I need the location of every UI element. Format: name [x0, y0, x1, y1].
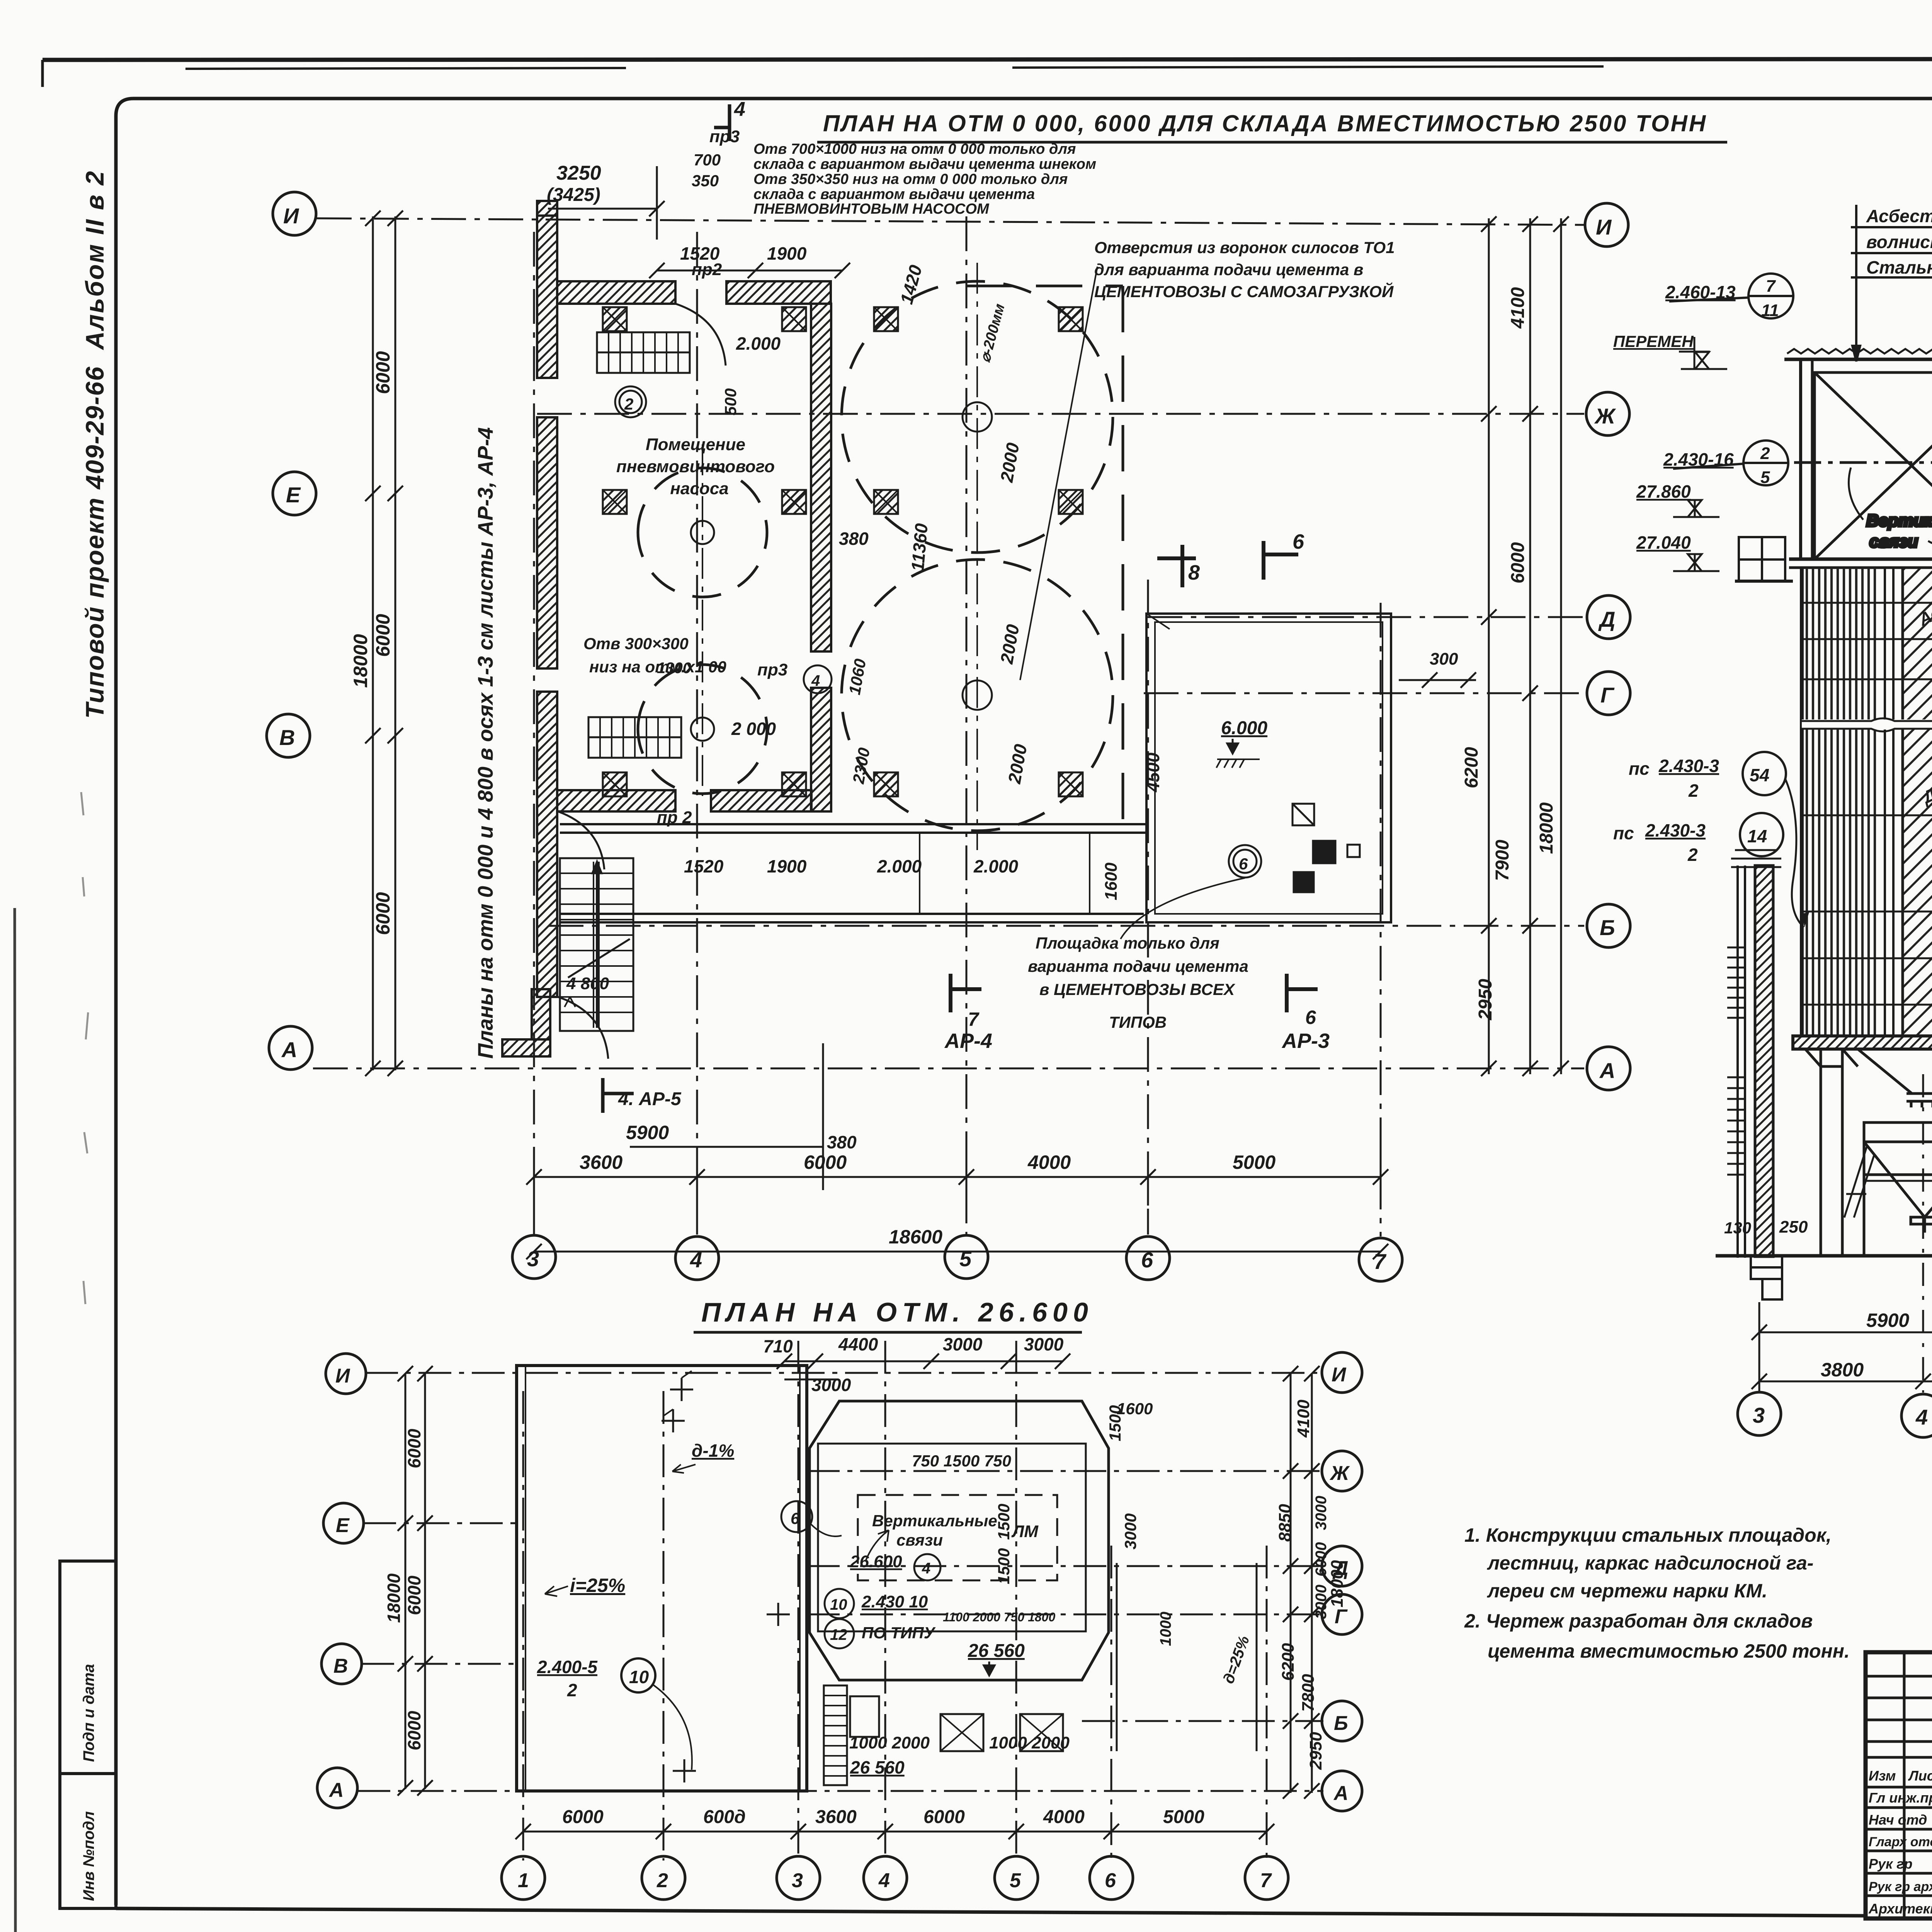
svg-text:14: 14 [1747, 826, 1767, 846]
big dashed silo circles [638, 281, 1113, 831]
svg-text:ТИПОВ: ТИПОВ [1109, 1013, 1167, 1031]
svg-text:6000: 6000 [404, 1429, 424, 1468]
svg-text:130: 130 [1724, 1219, 1751, 1237]
svg-text:6000: 6000 [1508, 542, 1528, 583]
svg-text:4: 4 [811, 672, 820, 689]
svg-text:3000: 3000 [1024, 1334, 1064, 1354]
conveyor upper [597, 332, 690, 373]
svg-text:А: А [1333, 1782, 1349, 1804]
svg-text:Альбом II в 2: Альбом II в 2 [80, 170, 109, 350]
svg-text:4500: 4500 [1143, 752, 1163, 793]
svg-text:250: 250 [1779, 1218, 1808, 1236]
svg-text:3800: 3800 [1821, 1359, 1864, 1381]
svg-text:Отв 700×1000 низ на отм 0 000: Отв 700×1000 низ на отм 0 000 только для [753, 141, 1076, 157]
svg-text:И: И [335, 1365, 350, 1387]
diag hatch column 1 [1903, 568, 1932, 1036]
dashed boundary right of circles [1122, 286, 1124, 842]
right bubbles plan2 [1322, 1352, 1362, 1811]
svg-text:6000: 6000 [404, 1575, 424, 1615]
svg-text:1600: 1600 [1102, 862, 1121, 900]
conveyor lower [588, 717, 681, 758]
svg-text:12: 12 [830, 1626, 847, 1643]
svg-text:Отв 350×350 низ на отм 0 000 т: Отв 350×350 низ на отм 0 000 только для [753, 171, 1068, 187]
svg-text:380: 380 [839, 529, 869, 549]
vertical braces label [1866, 511, 1932, 551]
svg-text:10: 10 [830, 1596, 847, 1613]
svg-text:ПЛАН НА ОТМ. 26.600: ПЛАН НА ОТМ. 26.600 [701, 1297, 1094, 1327]
svg-text:2: 2 [1688, 781, 1699, 801]
svg-text:ПО ТИПУ: ПО ТИПУ [862, 1624, 936, 1642]
grid lines vertical [533, 232, 535, 1235]
left margin cell podp i data [60, 1561, 116, 1774]
svg-text:4100: 4100 [1294, 1400, 1313, 1438]
svg-text:1500: 1500 [995, 1504, 1013, 1540]
svg-text:В: В [333, 1655, 348, 1677]
svg-text:26 560: 26 560 [968, 1641, 1025, 1661]
room label [616, 435, 775, 498]
circle 7/11 [1669, 274, 1793, 485]
svg-text:3000: 3000 [1313, 1496, 1330, 1530]
svg-text:6: 6 [1105, 1869, 1116, 1892]
silo center lines [702, 263, 977, 850]
stair tower left [1727, 850, 1782, 1299]
svg-text:27.040: 27.040 [1636, 532, 1691, 553]
svg-text:710: 710 [763, 1336, 793, 1356]
svg-text:2.000: 2.000 [973, 856, 1019, 876]
svg-text:5: 5 [1010, 1869, 1021, 1892]
platform strip [560, 824, 1146, 922]
svg-text:6: 6 [791, 1509, 800, 1527]
silo body striped walls [1802, 568, 1932, 1036]
revision grid empty rows [1866, 1675, 1932, 1678]
svg-text:Изм: Изм [1869, 1768, 1896, 1784]
svg-text:1600: 1600 [1117, 1400, 1153, 1418]
svg-text:Вертикальные: Вертикальные [872, 1512, 997, 1530]
revision header row [1866, 1756, 1932, 1759]
circle 6 annex [1229, 845, 1261, 878]
svg-text:4 800: 4 800 [566, 974, 609, 993]
svg-text:380: 380 [827, 1132, 857, 1152]
svg-text:3: 3 [1753, 1403, 1765, 1427]
svg-text:АР-4: АР-4 [944, 1029, 992, 1053]
svg-text:Отв 300×300: Отв 300×300 [583, 634, 689, 653]
svg-text:6: 6 [1239, 855, 1248, 873]
left dim chain plan2 [398, 1366, 433, 1796]
svg-text:Вертикальные: Вертикальные [1866, 511, 1932, 530]
svg-text:1500: 1500 [995, 1548, 1013, 1584]
svg-text:2: 2 [567, 1680, 577, 1700]
svg-text:5900: 5900 [1866, 1310, 1909, 1331]
svg-text:Лист: Лист [1908, 1768, 1932, 1784]
svg-text:6: 6 [1293, 530, 1304, 553]
svg-text:связи: связи [1869, 532, 1918, 551]
bottom grid bubbles [512, 1235, 1402, 1281]
south wall of pump room [557, 790, 675, 811]
svg-text:4. АР-5: 4. АР-5 [618, 1089, 682, 1109]
svg-text:6.000: 6.000 [1221, 718, 1267, 738]
svg-text:2. Чертеж разработан для склад: 2. Чертеж разработан для складов [1464, 1610, 1813, 1632]
svg-text:3000: 3000 [943, 1334, 983, 1354]
svg-text:6200: 6200 [1279, 1643, 1298, 1681]
page left cut edge [15, 908, 15, 1932]
svg-text:А: А [281, 1037, 297, 1062]
svg-text:пневмовинтового: пневмовинтового [616, 457, 775, 476]
svg-text:300: 300 [1430, 650, 1458, 668]
svg-text:ПЕРЕМЕН: ПЕРЕМЕН [1613, 332, 1694, 350]
svg-text:Ж: Ж [1594, 404, 1616, 428]
svg-text:Асбестоцементные: Асбестоцементные [1866, 206, 1932, 226]
svg-text:Б: Б [1600, 915, 1615, 940]
svg-text:1. Конструкции стальных площад: 1. Конструкции стальных площадок, [1464, 1524, 1832, 1546]
svg-text:Б: Б [1334, 1712, 1348, 1735]
interior east wall [811, 304, 831, 651]
svg-text:i=25%: i=25% [570, 1575, 625, 1596]
ground line [1716, 1256, 1932, 1294]
svg-text:18000: 18000 [1328, 1560, 1347, 1607]
gallery floor slab [1789, 559, 1932, 568]
svg-text:6000: 6000 [923, 1807, 965, 1827]
svg-text:18000: 18000 [384, 1573, 404, 1623]
svg-text:4: 4 [734, 98, 745, 121]
svg-text:2.430-3: 2.430-3 [1645, 820, 1706, 840]
svg-text:6000: 6000 [372, 614, 394, 657]
svg-text:В: В [279, 725, 295, 750]
svg-text:8850: 8850 [1276, 1504, 1294, 1542]
svg-text:500: 500 [721, 388, 740, 415]
svg-text:1000 2000: 1000 2000 [989, 1733, 1070, 1752]
bottom slab [1793, 1036, 1932, 1049]
bottom bubbles plan2 [502, 1856, 1288, 1900]
roof legend 3 lines [1866, 206, 1932, 277]
small center circles [691, 402, 992, 741]
svg-text:2: 2 [1760, 444, 1770, 463]
right dim chain plan2 [1283, 1366, 1320, 1799]
svg-text:6000: 6000 [404, 1711, 424, 1750]
left bubbles plan2 [317, 1354, 366, 1808]
right side rotated dims plan1 [1481, 216, 1569, 1076]
svg-text:в ЦЕМЕНТОВОЗЫ ВСЕХ: в ЦЕМЕНТОВОЗЫ ВСЕХ [1039, 980, 1236, 998]
west wall upper [537, 216, 557, 378]
gallery tower [1784, 341, 1932, 560]
svg-text:6: 6 [1305, 1007, 1316, 1028]
svg-text:Гларх отд: Гларх отд [1869, 1835, 1932, 1849]
note text top 5 lines [753, 141, 1096, 217]
right grid bubbles [1585, 203, 1630, 1090]
grid verticals [522, 1391, 524, 1861]
left margin cell inv n podl [60, 1774, 116, 1908]
svg-text:8: 8 [1188, 561, 1200, 584]
G-SECTION [1613, 141, 1932, 1437]
svg-text:ПЛАН НА ОТМ 0 000, 6000: ПЛАН НА ОТМ 0 000, 6000 ДЛЯ СКЛАДА ВМЕСТ… [823, 111, 1707, 136]
svg-text:2.000: 2.000 [877, 856, 922, 876]
ref circles 10 12 [825, 1589, 854, 1648]
columns with x [603, 307, 1083, 796]
svg-text:6000: 6000 [372, 892, 394, 935]
stair bottom left [560, 858, 633, 1031]
svg-text:д-1%: д-1% [692, 1440, 734, 1461]
svg-text:2.000: 2.000 [736, 333, 781, 354]
svg-text:350: 350 [692, 172, 719, 190]
left labels column [1613, 282, 1736, 553]
svg-text:для варианта подачи цемента: для варианта подачи цемента в [1094, 260, 1363, 279]
svg-text:18600: 18600 [889, 1226, 942, 1248]
north wall [557, 281, 675, 304]
svg-text:цемента вместимостью 2500 тонн: цемента вместимостью 2500 тонн. [1488, 1640, 1850, 1662]
svg-text:3000: 3000 [1313, 1585, 1330, 1619]
svg-text:А: А [328, 1779, 344, 1801]
title block outer box [1866, 1652, 1932, 1918]
svg-text:2 000: 2 000 [731, 719, 776, 739]
grid horizontals [357, 1341, 1323, 1861]
svg-text:5900: 5900 [626, 1122, 669, 1143]
svg-text:Рук гр арх: Рук гр арх [1869, 1879, 1932, 1894]
section mark 4 top [714, 104, 730, 141]
svg-text:7800: 7800 [1299, 1674, 1318, 1712]
svg-text:4: 4 [1915, 1405, 1928, 1429]
svg-text:7: 7 [968, 1009, 980, 1030]
svg-text:Нач отд: Нач отд [1869, 1812, 1927, 1828]
svg-text:6000: 6000 [562, 1807, 604, 1827]
leg capitals [1805, 1049, 1858, 1066]
body edges [1800, 568, 1804, 1036]
svg-text:18000: 18000 [350, 634, 371, 688]
svg-text:3250: 3250 [556, 162, 601, 184]
svg-text:пр2: пр2 [692, 260, 722, 279]
svg-text:лестниц, каркас надсилосной га: лестниц, каркас надсилосной га- [1487, 1552, 1813, 1574]
gallery octagon [810, 1401, 1109, 1680]
svg-text:3600: 3600 [580, 1151, 622, 1173]
G-PLAN1 [267, 98, 1727, 1281]
svg-text:26 560: 26 560 [850, 1757, 905, 1777]
svg-text:7900: 7900 [1492, 840, 1513, 881]
bottom dim line plan2 [515, 1824, 1274, 1839]
grid bubbles 3 4 5 [1738, 1392, 1932, 1437]
svg-text:АР-3: АР-3 [1281, 1029, 1330, 1053]
svg-text:ЦЕМЕНТОВОЗЫ С САМОЗАГРУЗКОЙ: ЦЕМЕНТОВОЗЫ С САМОЗАГРУЗКОЙ [1094, 282, 1394, 301]
svg-text:6200: 6200 [1461, 747, 1482, 788]
legs [1805, 1049, 1932, 1256]
bottom section marks AR-4 AR-3 [951, 974, 1318, 1012]
building outline plan2 [517, 1366, 807, 1791]
west wall middle [537, 417, 557, 668]
west wall lower [537, 692, 557, 997]
svg-text:Планы на отм 0 000 и 4 800 в о: Планы на отм 0 000 и 4 800 в осях 1-3 см… [473, 427, 497, 1059]
svg-text:Ж: Ж [1329, 1462, 1350, 1485]
svg-text:4000: 4000 [1027, 1151, 1071, 1173]
west wall cap above I [537, 201, 557, 216]
svg-text:связи: связи [896, 1531, 943, 1549]
left dimension chain [365, 211, 403, 1076]
svg-text:4400: 4400 [838, 1334, 878, 1354]
svg-text:Г: Г [1600, 683, 1615, 707]
svg-text:4100: 4100 [1508, 287, 1528, 329]
svg-text:Помещение: Помещение [646, 435, 745, 454]
svg-text:5000: 5000 [1233, 1151, 1276, 1173]
svg-text:Рук гр: Рук гр [1869, 1856, 1912, 1872]
ploshchadka note 4 lines [1028, 934, 1248, 1031]
svg-text:4: 4 [878, 1869, 890, 1892]
walls [537, 201, 831, 1059]
svg-text:750 1500 750: 750 1500 750 [912, 1452, 1011, 1470]
revision grid verticals [1903, 1652, 1906, 1918]
X brace panel [1815, 372, 1932, 559]
svg-text:11360: 11360 [907, 522, 932, 572]
svg-text:54: 54 [1750, 765, 1769, 785]
drain crosses [662, 1371, 790, 1782]
svg-text:волнистые листы: волнистые листы [1866, 232, 1932, 252]
svg-text:Отверстия из воронок силосов: Отверстия из воронок силосов ТО1 [1094, 238, 1395, 257]
svg-text:Стальные прогоны: Стальные прогоны [1866, 257, 1932, 277]
name rows [1866, 1806, 1932, 1809]
wavy break band [1802, 718, 1932, 731]
svg-text:7: 7 [1766, 277, 1776, 296]
annex platform right [1146, 614, 1391, 922]
svg-text:пр3: пр3 [709, 127, 740, 146]
svg-text:ЛМ: ЛМ [1011, 1522, 1039, 1541]
svg-text:10: 10 [629, 1667, 649, 1687]
svg-text:5: 5 [959, 1247, 972, 1271]
svg-text:1: 1 [518, 1869, 529, 1892]
svg-text:2950: 2950 [1475, 979, 1496, 1020]
G-PLAN2 [317, 1297, 1362, 1900]
svg-text:ПНЕВМОВИНТОВЫМ НАСОСОМ: ПНЕВМОВИНТОВЫМ НАСОСОМ [753, 201, 990, 217]
svg-text:26.600: 26.600 [850, 1552, 902, 1571]
svg-text:2: 2 [1687, 845, 1698, 865]
svg-text:Гл инж.пр: Гл инж.пр [1869, 1790, 1932, 1806]
svg-text:7: 7 [1260, 1869, 1272, 1892]
svg-text:3: 3 [527, 1247, 539, 1271]
svg-text:1000: 1000 [1157, 1612, 1174, 1646]
svg-text:3000: 3000 [1121, 1514, 1139, 1549]
svg-text:1300: 1300 [657, 660, 691, 677]
title block texts [1868, 1674, 1932, 1921]
svg-text:И: И [1332, 1364, 1347, 1386]
svg-text:5: 5 [1760, 468, 1770, 487]
svg-text:4000: 4000 [1043, 1807, 1085, 1827]
G-NOTES [1464, 1524, 1850, 1662]
svg-text:2.430-3: 2.430-3 [1658, 756, 1719, 776]
bottom dim lines [1752, 1074, 1932, 1393]
svg-text:лереи см чертежи нарки КМ.: лереи см чертежи нарки КМ. [1487, 1580, 1767, 1602]
callout text 3 lines [1094, 238, 1395, 301]
svg-text:700: 700 [694, 151, 721, 169]
svg-text:3: 3 [792, 1869, 803, 1892]
G-TITLEBLOCK [1866, 1597, 1932, 1932]
frame bottom line [116, 1908, 1866, 1916]
svg-text:И: И [283, 204, 299, 228]
svg-text:4: 4 [922, 1560, 930, 1577]
hopper A [1858, 1049, 1932, 1094]
svg-text:1900: 1900 [767, 856, 807, 876]
left grid bubbles [267, 192, 316, 1070]
svg-text:Г: Г [1335, 1605, 1348, 1628]
svg-text:2: 2 [656, 1869, 668, 1892]
svg-text:пс: пс [1613, 823, 1634, 843]
svg-text:6000: 6000 [372, 351, 394, 394]
svg-text:18000: 18000 [1536, 802, 1557, 854]
svg-text:1900: 1900 [767, 243, 807, 264]
svg-text:И: И [1596, 215, 1612, 239]
svg-text:склада с вариантом выдачи цеме: склада с вариантом выдачи цемента [753, 186, 1035, 202]
svg-text:6000: 6000 [1313, 1542, 1330, 1577]
horizontal band lines [1802, 602, 1932, 604]
svg-text:6000: 6000 [804, 1151, 847, 1173]
svg-text:2.400-5: 2.400-5 [537, 1657, 598, 1677]
svg-text:3600: 3600 [815, 1807, 857, 1827]
lower bin with funnel [1844, 1122, 1932, 1256]
svg-text:5000: 5000 [1163, 1807, 1204, 1827]
panel joint lines [1884, 568, 1886, 1036]
svg-text:1000 2000: 1000 2000 [849, 1733, 930, 1752]
legend leader left [1852, 205, 1860, 361]
svg-text:варианта подачи цемента: варианта подачи цемента [1028, 957, 1248, 975]
door arcs [675, 304, 726, 366]
legend rules [1851, 226, 1932, 228]
svg-text:склада с вариантом выдачи цеме: склада с вариантом выдачи цемента шнеком [753, 156, 1096, 172]
section marks 8 and 6 [1157, 541, 1298, 587]
svg-text:пс: пс [1629, 759, 1650, 779]
svg-text:Инв №подл: Инв №подл [80, 1811, 97, 1901]
svg-text:3000: 3000 [811, 1375, 851, 1395]
svg-text:Подп и дата: Подп и дата [80, 1664, 97, 1762]
platform at level 27.040 [1735, 537, 1793, 581]
svg-text:600д: 600д [703, 1807, 746, 1827]
bottom dims [603, 1078, 634, 1113]
level marks left [1673, 337, 1727, 571]
svg-text:1100 2000 750 1800: 1100 2000 750 1800 [943, 1610, 1055, 1624]
svg-text:Е: Е [336, 1514, 350, 1537]
svg-text:Типовой проект 409-29-66: Типовой проект 409-29-66 [80, 366, 109, 719]
room number circle 2 [615, 386, 646, 417]
ps 2.430-3/2 circle 54 [1613, 756, 1719, 865]
svg-text:Архитект: Архитект [1868, 1901, 1932, 1917]
svg-text:27.860: 27.860 [1636, 481, 1691, 502]
svg-text:насоса: насоса [670, 479, 728, 498]
lower appendages [824, 1563, 1257, 1785]
svg-text:2.430 10: 2.430 10 [861, 1592, 928, 1611]
svg-text:А: А [1599, 1058, 1615, 1083]
svg-text:2950: 2950 [1306, 1732, 1325, 1770]
page top border [43, 59, 1932, 60]
svg-text:пр3: пр3 [757, 660, 787, 679]
grid lines horizontal dash-dot [313, 216, 1584, 1236]
svg-text:11: 11 [1761, 301, 1779, 320]
Ao labels in hatch columns [1916, 603, 1932, 939]
svg-text:2: 2 [624, 395, 633, 413]
svg-text:Д: Д [1598, 607, 1615, 631]
svg-text:Площадка только для: Площадка только для [1036, 934, 1219, 952]
svg-text:Е: Е [286, 483, 301, 507]
silo wall stripe panel 1 [1805, 568, 1878, 1036]
svg-text:1520: 1520 [684, 856, 724, 876]
